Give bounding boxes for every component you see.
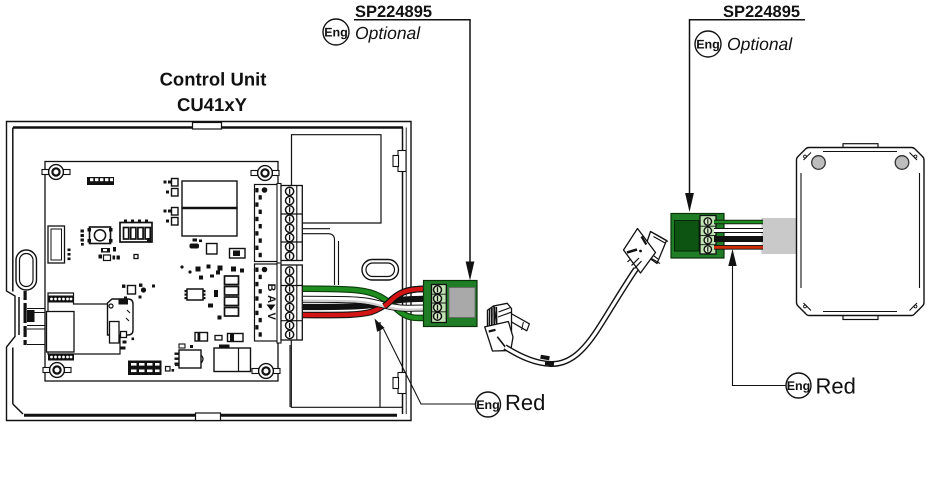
control unit enclosure outer wall [7,122,412,421]
enclosure inner left wall [13,128,23,415]
small marks above sim [122,284,155,300]
svg-text:Red: Red [816,374,856,399]
svg-text:B A: B A [265,284,277,304]
enclosure inner right wall [402,128,404,415]
small parts below switch [68,247,139,261]
PCB corner screw bottom-right [252,364,280,379]
svg-text:Optional: Optional [355,23,421,43]
obround hole centre wall [362,260,399,281]
PCB corner screw top-left [42,165,70,180]
terminal block upper: group dividers [281,214,302,242]
relay K2 [182,208,237,236]
scattered smd parts [180,265,244,280]
inner compartment box top-right [292,135,382,223]
inner outline segments [801,152,920,312]
leader line left SP224895 [354,20,474,281]
screws [434,286,442,320]
terminal block upper: screws [286,187,294,195]
obround hole left wall [16,250,37,290]
label Eng Red right with leader arrow to red wire [786,373,856,399]
wire red (under layer) [303,289,433,318]
dotted header top [48,296,74,303]
tact switch SW1 [88,227,113,244]
PCB board outline [45,162,278,382]
crystal Y1 [48,226,65,263]
svg-text:Red: Red [505,390,545,415]
wire white [303,299,433,308]
svg-text:V: V [265,313,277,321]
svg-text:Eng: Eng [476,398,500,412]
screw right [895,156,909,170]
left wall cable passage [27,309,46,345]
relay K1 [182,181,237,208]
lines below lower terminal block [275,341,290,407]
svg-text:Eng: Eng [696,38,720,52]
enclosure top tab [193,123,222,130]
terminal block lower: group dividers [281,286,302,321]
screw left [812,156,826,170]
wire red overdraw (on top) [384,289,433,307]
modular plug P1 (left) [485,303,530,351]
left power connector module outline [48,293,120,354]
corner chamfer dashes [804,153,812,161]
partition double line with rounded corner [303,229,339,285]
label: Control Unit title [160,69,267,116]
svg-text:Eng: Eng [324,26,348,40]
right wall clip bottom [393,373,406,394]
wire red right [714,245,763,250]
SP224895 adapter right: green pcb [671,214,724,259]
enclosure inner bottom thick line [24,414,195,417]
enclosure inner top thick line [13,126,192,129]
svg-text:CU41xY: CU41xY [177,94,248,115]
svg-text:SP224895: SP224895 [355,3,432,21]
terminal block upper: body [255,185,278,262]
leader line right SP224895 [685,20,805,212]
resistor pack dots [81,230,84,246]
caps below relays [190,239,246,259]
wires adapter right to ribbon: green [714,222,763,247]
passage dark block [27,310,35,322]
leader line right Eng Red [728,249,786,386]
PCB corner screw top-right [251,166,279,181]
power jack body [47,312,75,353]
inner compartment box bottom-right [291,322,403,407]
label Eng Red left with leader arrow to red wire [476,390,546,417]
svg-text:SP224895: SP224895 [723,3,800,21]
top row small parts y333 [195,333,243,342]
svg-text:Optional: Optional [727,34,793,54]
regulator TO-220 [175,344,204,368]
room unit device [797,144,925,320]
PCB corner screw bottom-left [43,363,71,378]
svg-text:Control Unit: Control Unit [160,69,267,90]
label Eng Optional right [695,31,793,57]
optocoupler column [225,276,239,316]
ribbon cable grey [762,218,798,254]
right wall clip top [393,151,406,172]
misc bits left-bottom [121,332,135,350]
enclosure bottom tab [196,413,221,421]
DIP switch S1 [120,220,152,243]
terminal strip [432,285,447,323]
svg-text:Eng: Eng [787,379,811,393]
wire black right [714,236,763,242]
bits near grid [166,363,179,372]
twisted patch cable [505,269,636,364]
terminal block lower: screws [286,267,294,275]
wire white right [714,228,763,233]
transformer T1 [214,345,251,372]
label SP224895 right with leader [723,3,800,21]
modular plug P2 (right) [624,229,669,274]
cable markers [540,355,550,361]
dotted header bottom [48,354,74,361]
terminal block lower: body [255,264,278,341]
leader line left Eng Red [375,319,476,405]
header J1 [87,177,114,185]
indicator pairs left of relays row1 [164,179,179,226]
SOIC U2 [185,289,206,300]
sim holder [108,299,134,343]
wire black [303,299,433,307]
label Eng Optional left [323,19,421,45]
SP224895 adapter left: green pcb [424,281,478,327]
label SP224895 left with leader [355,3,432,21]
module grey body [449,288,475,318]
left wall heavy dashed tab [24,291,27,345]
wire green [303,289,433,318]
pin header grid 2x4 [128,361,162,376]
